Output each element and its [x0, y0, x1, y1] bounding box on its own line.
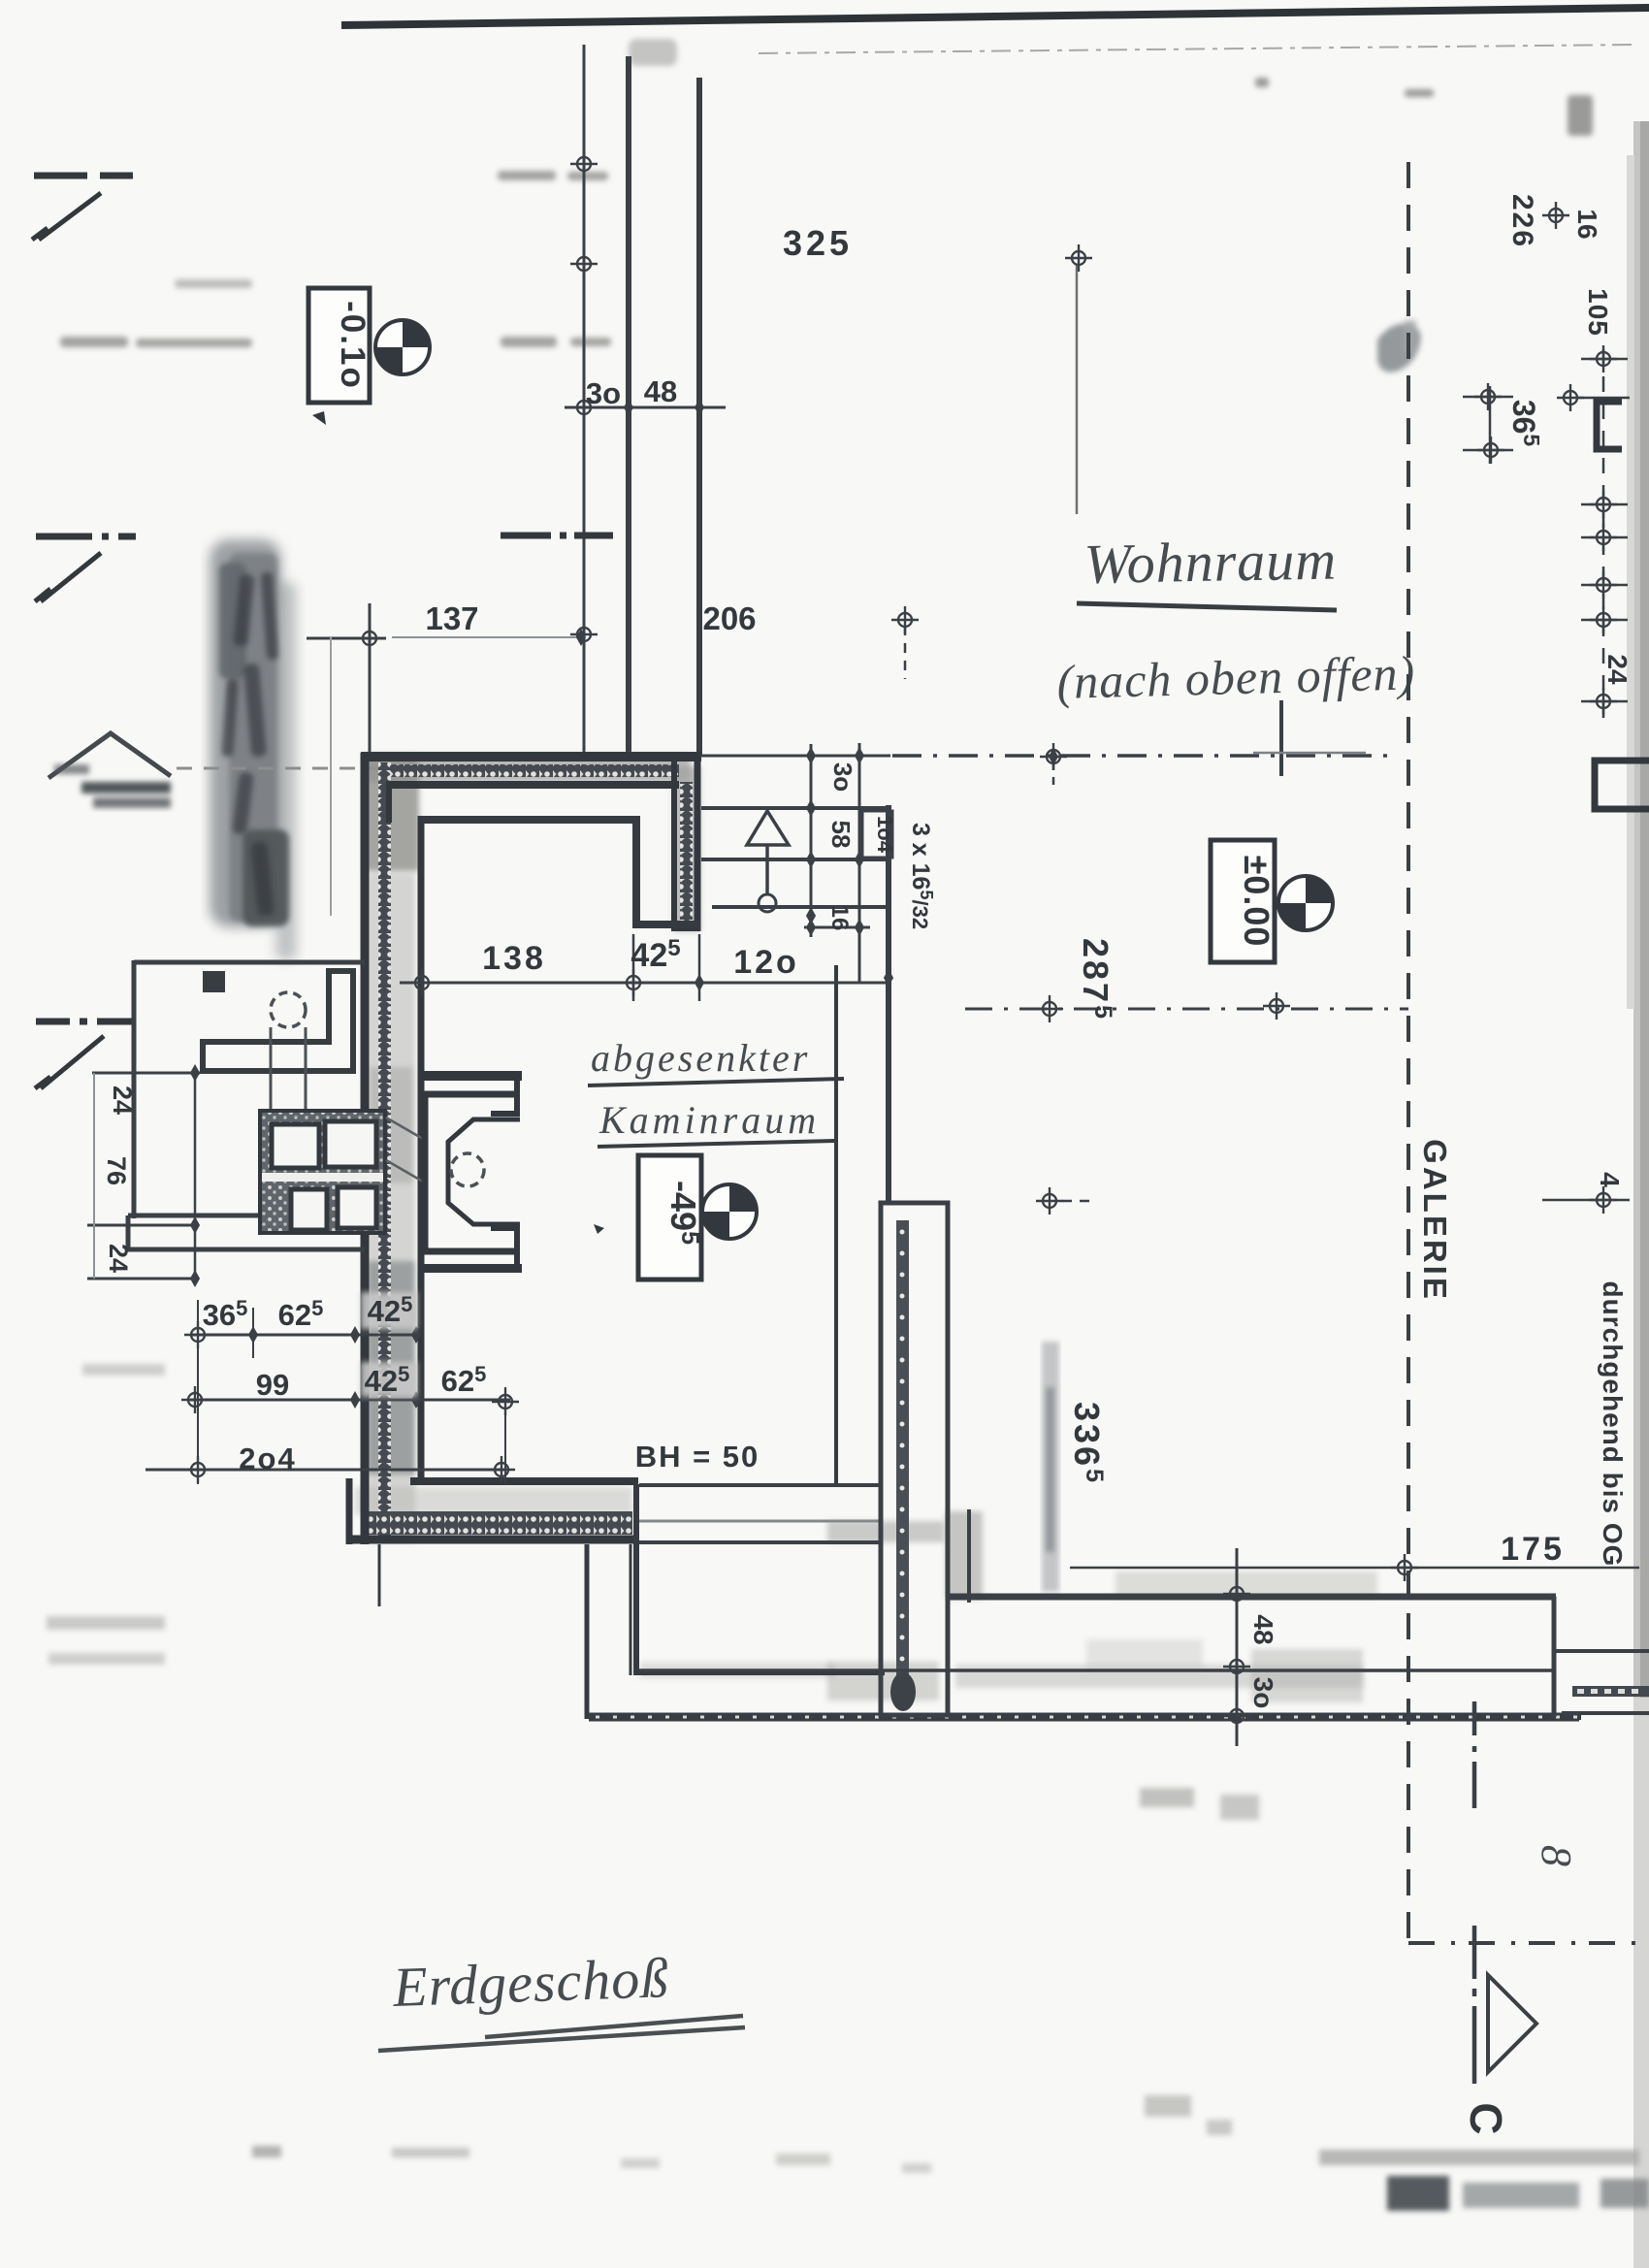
svg-text:4: 4 — [1595, 1172, 1625, 1187]
svg-text:2o4: 2o4 — [239, 1442, 296, 1475]
svg-text:16: 16 — [1572, 209, 1602, 239]
svg-text:325: 325 — [783, 223, 853, 263]
svg-text:3 x 165/32: 3 x 165/32 — [907, 823, 936, 929]
svg-text:58: 58 — [826, 821, 856, 849]
svg-text:175: 175 — [1501, 1531, 1565, 1568]
svg-text:Erdgeschoß: Erdgeschoß — [391, 1946, 670, 2019]
svg-text:226: 226 — [1506, 194, 1538, 248]
svg-text:99: 99 — [256, 1368, 289, 1402]
svg-text:C: C — [1461, 2102, 1511, 2134]
svg-text:16: 16 — [826, 905, 853, 931]
svg-text:3o: 3o — [828, 762, 857, 792]
svg-text:24: 24 — [104, 1244, 133, 1273]
svg-text:24: 24 — [1602, 654, 1633, 685]
svg-text:137: 137 — [425, 600, 478, 636]
svg-text:(nach oben offen): (nach oben offen) — [1056, 645, 1416, 709]
svg-text:-0.1o: -0.1o — [334, 301, 372, 390]
svg-text:BH = 50: BH = 50 — [635, 1440, 760, 1474]
svg-text:48: 48 — [644, 374, 677, 408]
svg-text:105: 105 — [1583, 288, 1613, 337]
svg-text:48: 48 — [1248, 1614, 1278, 1644]
svg-text:GALERIE: GALERIE — [1417, 1139, 1453, 1302]
svg-text:24: 24 — [108, 1085, 137, 1115]
svg-text:abgesenkter: abgesenkter — [591, 1036, 810, 1080]
svg-text:76: 76 — [102, 1156, 131, 1185]
svg-text:206: 206 — [702, 600, 756, 636]
svg-text:durchgehend bis OG: durchgehend bis OG — [1598, 1281, 1628, 1568]
svg-text:Kaminraum: Kaminraum — [598, 1098, 820, 1142]
svg-text:1o4: 1o4 — [873, 816, 897, 854]
svg-text:3o: 3o — [586, 376, 621, 410]
svg-text:138: 138 — [482, 940, 546, 977]
svg-text:Wohnraum: Wohnraum — [1083, 528, 1338, 596]
svg-text:±0.00: ±0.00 — [1237, 856, 1277, 948]
svg-text:12o: 12o — [733, 944, 799, 981]
svg-text:3o: 3o — [1248, 1677, 1278, 1709]
svg-text:8: 8 — [1533, 1845, 1580, 1866]
